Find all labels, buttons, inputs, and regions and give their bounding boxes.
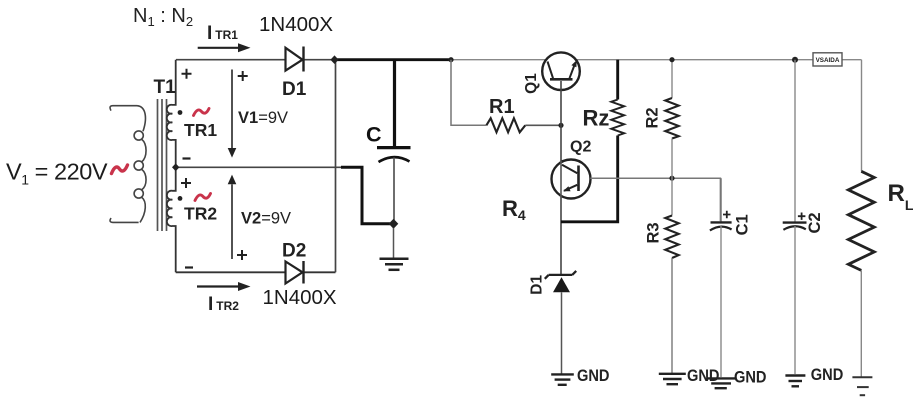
resistor R3 — [665, 216, 678, 259]
resistor Rz — [611, 100, 624, 136]
svg-text:D1: D1 — [528, 275, 545, 295]
capacitor C lead — [393, 60, 396, 146]
wire center tap — [176, 166, 341, 168]
svg-text:ITR1: ITR1 — [207, 23, 238, 44]
svg-text:Rz: Rz — [583, 106, 610, 131]
ground C1 — [707, 378, 736, 388]
wire Q2 base right — [590, 178, 720, 221]
node diamond after D1 — [330, 55, 338, 64]
wire Q1 base down — [560, 81, 562, 125]
svg-text:GND: GND — [687, 366, 720, 385]
node dot base wire at R2R3 — [669, 176, 674, 181]
ground RL — [852, 377, 872, 395]
svg-text:R3: R3 — [644, 222, 662, 243]
svg-text:Q2: Q2 — [570, 139, 591, 156]
wire R2 top — [671, 60, 673, 98]
node dot base Q1 — [558, 123, 563, 128]
wire to ground C — [393, 228, 395, 258]
svg-text:1N400X: 1N400X — [259, 13, 333, 36]
transformer primary winding — [110, 106, 146, 223]
wire Q2 emitter down — [560, 197, 562, 274]
plus V1 — [238, 71, 248, 81]
arrow I TR1 — [198, 47, 238, 49]
svg-text:Q1: Q1 — [523, 73, 540, 94]
resistor Rz leads thick — [561, 60, 618, 222]
diode D2 — [286, 262, 303, 284]
svg-text:V1 = 220V: V1 = 220V — [6, 159, 108, 188]
transformer secondary line + TR1 winding — [167, 60, 176, 168]
svg-text:R2: R2 — [644, 107, 662, 128]
node diamond C bottom — [389, 219, 399, 229]
resistor R1 — [486, 118, 525, 132]
svg-text:D2: D2 — [282, 241, 306, 262]
wire top rail grey — [451, 60, 862, 172]
resistor R2 — [665, 98, 678, 139]
svg-text:N1 : N2: N1 : N2 — [133, 5, 193, 29]
capacitor C2 — [794, 60, 796, 222]
transformer T1 core — [158, 99, 167, 231]
wire top rail thick — [333, 58, 451, 61]
plus C1 — [723, 211, 731, 218]
transistor Q2 — [552, 160, 591, 199]
VSAIDA box — [813, 53, 842, 66]
wire R2 to R3 — [671, 139, 673, 216]
svg-text:C1: C1 — [734, 214, 752, 235]
diode D1 — [286, 48, 303, 71]
plus TR2 top — [181, 178, 191, 188]
svg-text:1N400X: 1N400X — [263, 286, 337, 309]
svg-text:T1: T1 — [154, 77, 177, 98]
zener D1 — [545, 271, 576, 279]
svg-text:VSAIDA: VSAIDA — [816, 57, 840, 64]
plus V2 — [237, 250, 247, 260]
svg-text:ITR2: ITR2 — [208, 294, 239, 315]
svg-text:V2=9V: V2=9V — [241, 210, 291, 228]
transistor Q1 — [542, 52, 580, 90]
wire transformer bottom — [176, 271, 336, 273]
wire R1 branch — [451, 60, 486, 126]
svg-text:R1: R1 — [489, 96, 515, 118]
TR2 winding — [167, 167, 176, 272]
resistor RL — [848, 171, 874, 270]
wire R3 to ground — [671, 258, 673, 373]
wire zener to ground — [561, 292, 563, 373]
node dot rail R2 — [669, 57, 674, 62]
svg-text:TR1: TR1 — [184, 120, 217, 140]
wire base node to Q2 — [560, 125, 562, 161]
minus TR2 bottom — [185, 266, 193, 268]
wire center tap thick return — [341, 167, 390, 223]
svg-text:RL: RL — [888, 180, 914, 213]
arrow V2 up — [228, 175, 237, 185]
svg-text:D1: D1 — [282, 79, 307, 100]
svg-text:GND: GND — [811, 365, 844, 384]
red tilde TR1 — [194, 109, 210, 116]
wire RL to ground — [860, 270, 862, 377]
svg-text:GND: GND — [734, 368, 767, 387]
node dot rail at C branch/R1 — [448, 57, 453, 62]
svg-text:C2: C2 — [806, 212, 824, 233]
wire R1 to base node — [525, 124, 561, 126]
plus C2 — [798, 213, 806, 220]
wire top rail left — [176, 59, 335, 61]
minus TR1 bottom — [183, 157, 191, 159]
ground C — [380, 259, 409, 270]
arrow V1 down — [231, 70, 233, 149]
ground zener — [551, 374, 574, 384]
svg-text:C: C — [366, 123, 382, 147]
capacitor C1 — [720, 178, 722, 222]
node center tap diamond — [172, 163, 179, 171]
red tilde TR2 — [195, 194, 211, 201]
node dot rail C2 — [792, 57, 798, 63]
svg-text:V1=9V: V1=9V — [238, 109, 288, 127]
arrow I TR2 — [197, 285, 238, 287]
red tilde primary — [112, 165, 128, 174]
ground C2 — [785, 376, 805, 387]
capacitor C plates — [377, 146, 411, 149]
plus TR1 top — [182, 69, 192, 79]
phase dot TR2 — [178, 196, 183, 201]
ground R3 — [659, 374, 686, 384]
wire diode join vertical — [335, 60, 337, 273]
svg-text:R4: R4 — [502, 196, 526, 223]
svg-text:TR2: TR2 — [184, 204, 217, 224]
svg-text:GND: GND — [577, 366, 610, 385]
phase dot TR1 — [178, 110, 183, 115]
